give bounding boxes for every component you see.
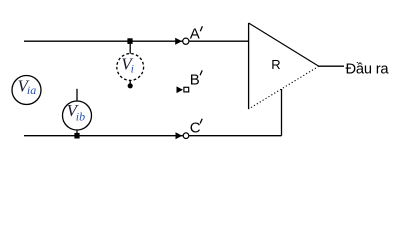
op-amp R triangle (249, 23, 319, 109)
wire bottom input (24, 135, 282, 137)
source Vib (63, 89, 92, 136)
svg-text:ib: ib (76, 109, 85, 123)
svg-text:A: A (190, 26, 200, 43)
svg-text:ia: ia (27, 83, 36, 97)
source Vi (dashed circle) (117, 43, 144, 88)
junction on bottom wire (74, 133, 79, 139)
svg-text:C: C (190, 120, 201, 137)
node C' arrow (176, 132, 183, 139)
svg-text:Đầu ra: Đầu ra (346, 61, 390, 77)
node B' terminal square (184, 87, 189, 92)
node C' terminal circle (183, 133, 189, 139)
svg-text:R: R (271, 57, 280, 72)
wire output (319, 65, 344, 67)
node A' terminal circle (183, 38, 189, 44)
wire vertical to amplifier bottom (281, 89, 283, 136)
junction on top wire (127, 38, 132, 44)
source Via (12, 76, 41, 105)
wire top input (24, 40, 248, 42)
node A' arrow (175, 38, 182, 45)
svg-text:i: i (131, 61, 134, 75)
svg-text:B: B (190, 72, 200, 89)
node B' arrow (177, 86, 184, 93)
